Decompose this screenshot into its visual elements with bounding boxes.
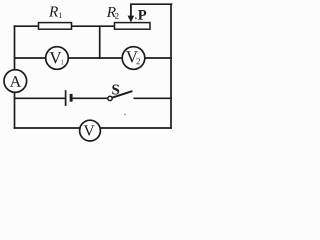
- wire: left rail: [14, 26, 16, 128]
- wire: battery to switch segment: [72, 97, 107, 99]
- rheostat R2 slider arrow P: [128, 4, 147, 22]
- voltmeter V (across battery): [80, 120, 101, 141]
- wire: battery rail left segment: [15, 97, 65, 99]
- resistor R1: [39, 7, 72, 30]
- wire: switch to right rail segment: [134, 97, 171, 99]
- battery cell (long thin + short thick plate): [66, 90, 72, 106]
- wire: voltmeter V1-V2 rail: [15, 57, 172, 59]
- wire: right rail: [170, 4, 172, 128]
- rheostat R2 (resistor box): [107, 7, 150, 29]
- voltmeter V1: [46, 47, 69, 70]
- wire: rheostat slider to right rail: [131, 3, 172, 5]
- wire: top rail through R1 to R2: [15, 25, 115, 27]
- voltmeter V2: [122, 47, 145, 70]
- ammeter A: [4, 70, 27, 93]
- wire: bottom rail: [15, 127, 172, 129]
- stray printing speck: [124, 114, 126, 116]
- switch S (open): [108, 84, 133, 100]
- wire: junction wire between R1/R2 and V1/V2: [99, 26, 101, 58]
